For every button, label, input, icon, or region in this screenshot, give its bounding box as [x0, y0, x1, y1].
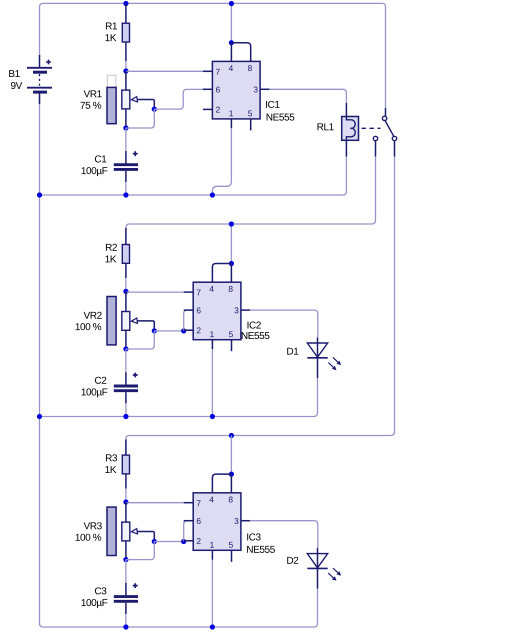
IC3 pin 7 stub: [184, 502, 194, 504]
node IC3 pin 2 junction: [181, 539, 186, 544]
node IC3 pins 4-8 junction: [229, 472, 234, 477]
resistor R1 body: [122, 23, 129, 42]
IC1 pin 7 stub: [203, 70, 213, 72]
label C2 value 100µF: [82, 388, 108, 397]
label C1: [95, 155, 106, 162]
LED D1 triangle: [307, 343, 327, 357]
capacitor C3 polarity plus sign: [133, 583, 138, 588]
IC1 pin 4 lead: [230, 43, 232, 62]
IC1 pin 2 stub: [203, 108, 213, 110]
node ground rail 2 / C2: [123, 414, 128, 419]
wire VR1 wiper to IC1 pin 6: [154, 89, 203, 109]
node ground rail 1 / C1: [123, 192, 128, 197]
wire node C to IC2 pin 7: [126, 291, 184, 293]
resistor R2 body: [122, 245, 129, 264]
label D2: [287, 557, 298, 564]
capacitor C3 bottom pin: [125, 603, 127, 614]
wire ground rail 1 (battery - to relay coil): [40, 157, 347, 195]
label VR2: [84, 312, 102, 319]
IC3 pin 6 stub: [184, 520, 194, 522]
potentiometer VR3 wiper lead: [137, 532, 154, 542]
capacitor C1 top pin: [125, 151, 127, 163]
IC1 pin numbers 7 4 8 6 3 2 1 5: [216, 65, 258, 116]
LED D1 cathode bar: [307, 357, 327, 359]
battery B1 inter-cell dashed link: [39, 74, 41, 87]
wire stage 3 rail to IC3 supply node: [230, 436, 232, 475]
wire VR3 wiper down to node F: [126, 542, 154, 560]
LED D1 anode/cathode lead: [317, 338, 319, 379]
capacitor C3 bottom plate: [114, 600, 138, 603]
wire LED D1 cathode to ground rail 2: [317, 378, 319, 413]
IC1 pin 1 lead: [230, 119, 232, 128]
node ground rail 1 / IC1 pin1: [210, 192, 215, 197]
node top rail / IC1 supply drop: [229, 1, 234, 6]
resistor R3 top pin: [125, 440, 127, 456]
capacitor C1 polarity plus sign: [133, 151, 138, 156]
IC3 pin 3 stub: [241, 520, 251, 522]
node wiper VR1 junction: [152, 107, 157, 112]
switch NO pin: [394, 141, 396, 157]
switch NC contact: [373, 136, 377, 140]
LED D2 emission arrow 1: [333, 568, 341, 576]
resistor R3 bottom pin: [125, 474, 127, 489]
wire R2 to VR2 junction: [125, 278, 127, 291]
resistor R2 bottom pin: [125, 263, 127, 278]
wire ground rail 3: [43, 623, 318, 627]
potentiometer VR3 element body: [122, 522, 130, 541]
node wiper VR3 junction: [152, 539, 157, 544]
potentiometer VR1 wiper lead: [137, 100, 154, 110]
label 9V: [11, 82, 22, 89]
IC3 pin 2 stub: [184, 540, 194, 542]
node IC2 pins 4-8 junction: [229, 261, 234, 266]
battery B1 cell 2 short plate: [33, 91, 47, 94]
potentiometer VR3 top pin: [125, 502, 127, 522]
switch NC pin: [375, 141, 377, 157]
node IC1 pins 4-8 junction: [229, 40, 234, 45]
switch common pin from top rail: [385, 108, 387, 116]
label C3 value 100µF: [82, 599, 108, 608]
resistor R1 bottom pin: [125, 42, 127, 61]
battery B1 cell 2 long plate: [27, 87, 52, 89]
wire node D to C2: [125, 349, 127, 372]
potentiometer VR2 wiper arrow: [131, 318, 137, 323]
label VR1 percent: [81, 102, 102, 109]
node ground rail 2 / left rail: [37, 414, 42, 419]
switch common contact: [382, 116, 386, 120]
IC1 pin 5 stub: [250, 119, 252, 130]
potentiometer VR1 element body: [122, 90, 130, 109]
potentiometer VR2 wiper lead: [137, 321, 154, 331]
battery B1 cell 1 long plate: [27, 67, 52, 69]
IC3 pin numbers 7 4 8 6 3 2 1 5: [197, 497, 239, 548]
wire ground rail 2: [40, 413, 318, 417]
IC3 pin 8 lead: [230, 474, 232, 493]
potentiometer VR3 wiper arrow: [131, 529, 137, 534]
label VR2 percent: [76, 323, 102, 330]
wire IC2 pin 3 to LED D1: [250, 310, 318, 337]
label C3: [95, 587, 106, 594]
label VR1: [84, 90, 102, 97]
wire VR3 wiper to IC3 pin 2: [154, 541, 183, 543]
wire C1 to ground rail 1: [125, 182, 127, 195]
relay RL1 coil body: [342, 117, 359, 141]
resistor R2 top pin: [125, 228, 127, 245]
wire switch NC to stage 2 supply rail: [126, 157, 376, 245]
LED D1 emission arrow 1: [333, 357, 341, 365]
node B VR1 bottom junction: [123, 125, 128, 130]
relay RL1 top pin: [345, 103, 347, 117]
potentiometer VR2 bottom pin: [125, 330, 127, 349]
label R1 value 1K: [105, 34, 116, 41]
node wiper VR2 junction: [152, 328, 157, 333]
wire LED D2 cathode to ground rail 3: [317, 589, 319, 624]
wire C2 to ground rail 2: [125, 403, 127, 416]
potentiometer VR3 level bar fill: [107, 507, 116, 555]
capacitor C3 top plate: [114, 595, 138, 598]
IC2 pin numbers 7 4 8 6 3 2 1 5: [197, 286, 239, 337]
wire node B to C1: [125, 128, 127, 151]
relay RL1 coil symbol: [346, 117, 355, 141]
relay RL1 bottom pin: [345, 140, 347, 156]
wire R1 to VR1 junction: [125, 61, 127, 71]
wire pin2 node up to IC3 pin 6: [184, 521, 194, 542]
IC3 pin 5 stub: [231, 550, 233, 562]
wire IC3 pin 1 to ground rail 3: [211, 560, 213, 627]
IC2 pin 8 lead: [230, 264, 232, 283]
IC3 pin 4 loop lead: [212, 474, 231, 493]
wire C3 to ground rail 3: [125, 614, 127, 627]
wire VR2 wiper down to node D: [126, 331, 154, 349]
label R2 value 1K: [105, 256, 116, 263]
node F VR3 bottom junction: [123, 557, 128, 562]
capacitor C2 top plate: [114, 385, 138, 388]
LED D1 emission arrow 2: [328, 363, 336, 371]
label VR3 percent: [76, 534, 102, 541]
potentiometer VR1 top pin: [125, 71, 127, 90]
wire node A to IC1 pin 7: [126, 70, 203, 72]
label C2: [95, 377, 106, 384]
op-amp timer IC IC1 NE555 body: [212, 61, 260, 119]
wire top rail to IC1 supply node: [230, 4, 232, 43]
label R2: [106, 244, 117, 251]
wire IC1 pin 1 to ground rail 1: [212, 128, 231, 196]
wire IC2 pin 1 to ground rail 2: [211, 349, 213, 416]
resistor R3 body: [122, 455, 129, 474]
node stage 2 rail / IC2 supply drop: [229, 221, 234, 226]
capacitor C2 bottom plate: [114, 389, 138, 392]
label RL1: [317, 123, 333, 130]
IC2 pin 5 stub: [231, 340, 233, 352]
label R3: [106, 454, 117, 461]
label B1: [9, 70, 20, 77]
label IC1: [266, 101, 279, 108]
IC2 pin 7 stub: [184, 291, 194, 293]
wire pin2 node up to IC2 pin 6: [184, 310, 194, 331]
potentiometer VR2 level bar fill: [107, 297, 116, 345]
LED D2 cathode bar: [307, 567, 327, 569]
wire top supply rail from battery + to switch: [40, 3, 386, 108]
label D1: [287, 348, 298, 355]
IC1 pin 8 loop lead: [231, 43, 250, 62]
node IC2 pin 2 junction: [181, 328, 186, 333]
capacitor C3 top pin: [125, 583, 127, 595]
wire IC1 pin 3 to relay RL1 coil: [270, 89, 347, 103]
IC2 pin 3 stub: [241, 309, 251, 311]
LED D2 emission arrow 2: [328, 573, 336, 581]
potentiometer VR2 element body: [122, 312, 130, 331]
op-amp timer IC IC3 NE555 body: [193, 493, 241, 551]
wire left rail battery - down to bottom ground rail: [40, 98, 44, 627]
potentiometer VR1 bottom pin: [125, 109, 127, 128]
wire stage 2 rail to IC2 supply node: [230, 224, 232, 264]
wire IC3 pin 3 to LED D2: [250, 521, 318, 548]
capacitor C1 bottom plate: [114, 168, 138, 171]
resistor R1 top pin: [125, 4, 127, 24]
op-amp timer IC IC2 NE555 body: [193, 282, 241, 340]
node A R1/VR1/pin7 junction: [123, 68, 128, 73]
label R3 value 1K: [105, 466, 116, 473]
label IC3: [247, 533, 260, 540]
potentiometer VR3 bottom pin: [125, 541, 127, 560]
wire VR1 wiper down to node B: [126, 109, 154, 128]
potentiometer VR1 level bar fill: [107, 87, 116, 123]
IC2 pin 2 stub: [184, 329, 194, 331]
battery B1 plus sign: [46, 60, 51, 65]
node ground rail 1 / left rail: [37, 192, 42, 197]
label IC1 part NE555: [267, 114, 295, 121]
label IC2 part NE555: [242, 332, 270, 339]
IC2 pin 6 stub: [184, 309, 194, 311]
wire VR2 wiper to IC2 pin 2: [154, 330, 183, 332]
node top rail / R1 junction: [123, 1, 128, 6]
IC1 pin 6 stub: [203, 88, 213, 90]
potentiometer VR2 top pin: [125, 291, 127, 311]
label VR3: [84, 522, 102, 529]
IC3 pin 1 lead: [211, 550, 213, 560]
node C R2/VR2/pin7 junction: [123, 289, 128, 294]
label R1: [106, 23, 117, 30]
battery B1 bottom pin: [39, 94, 41, 105]
capacitor C2 bottom pin: [125, 392, 127, 403]
node ground rail 2 / IC2 pin1: [210, 414, 215, 419]
IC2 pin 4 loop lead: [212, 264, 231, 283]
LED D2 anode/cathode lead: [317, 548, 319, 589]
wire R3 to VR3 junction: [125, 489, 127, 502]
capacitor C1 top plate: [114, 163, 138, 166]
capacitor C2 top pin: [125, 372, 127, 384]
battery B1 cell 1 short plate: [33, 71, 47, 74]
node D VR2 bottom junction: [123, 346, 128, 351]
node ground rail 3 / IC3 pin1: [210, 624, 215, 629]
switch NO contact: [392, 136, 396, 140]
switch blade: [385, 121, 393, 136]
IC2 pin 1 lead: [211, 340, 213, 350]
relay RL1 dashed actuator link: [362, 127, 381, 129]
node stage 3 rail / IC3 supply drop: [229, 433, 234, 438]
wire node E to IC3 pin 7: [126, 502, 184, 504]
wire node F to C3: [125, 560, 127, 583]
label C1 value 100µF: [82, 167, 108, 176]
label IC2: [248, 322, 261, 329]
potentiometer VR1 wiper arrow: [131, 97, 137, 102]
node ground rail 3 / C3: [123, 624, 128, 629]
IC1 pin 3 stub: [260, 88, 270, 90]
capacitor C1 bottom pin: [125, 171, 127, 182]
wire switch NO down to stage 3 supply rail: [126, 157, 395, 456]
capacitor C2 polarity plus sign: [133, 373, 138, 378]
LED D2 triangle: [307, 554, 327, 568]
potentiometer VR1 level bar empty part: [107, 75, 116, 87]
label IC3 part NE555: [247, 546, 275, 553]
node E R3/VR3/pin7 junction: [123, 499, 128, 504]
battery B1 top pin: [39, 55, 41, 67]
